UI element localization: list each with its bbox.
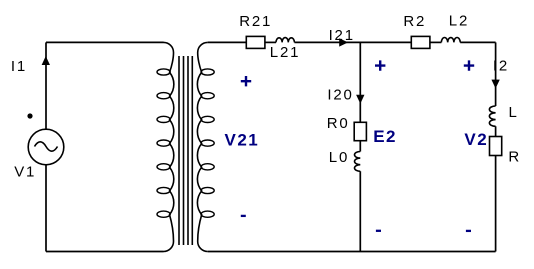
arrow I1 [42, 57, 49, 65]
wire bottom-left rail [46, 251, 164, 253]
wire secondary top rail segment 5 [460, 41, 495, 43]
svg-text:I21: I21 [329, 27, 355, 44]
svg-text:I20: I20 [327, 87, 353, 104]
resistor R2 [411, 36, 430, 48]
wire left vertical lower [45, 165, 47, 252]
resistor R [490, 137, 502, 156]
plus sign E2 [375, 60, 385, 70]
wire secondary top rail segment 3 [294, 41, 411, 43]
wire secondary top rail segment 4 [430, 41, 441, 43]
transformer core [179, 56, 192, 245]
svg-text:L2: L2 [449, 13, 469, 30]
transformer winding loops [157, 69, 214, 217]
minus sign E2 [376, 230, 381, 232]
transformer left winding [164, 42, 174, 251]
arrow I2 [492, 80, 499, 88]
wire right vertical middle [495, 126, 497, 136]
wire left vertical upper [45, 42, 47, 129]
wire middle branch between R0 and L0 [359, 141, 361, 152]
svg-text:R2: R2 [403, 13, 426, 30]
svg-text:L0: L0 [329, 149, 349, 166]
arrow I21 [340, 39, 348, 46]
svg-text:V2: V2 [464, 130, 488, 149]
polarity dot [27, 113, 32, 118]
wire bottom-right rail [208, 251, 496, 253]
svg-text:R21: R21 [239, 13, 272, 30]
wire right vertical lower [495, 156, 497, 252]
svg-text:L21: L21 [270, 44, 300, 61]
minus sign V2 [466, 230, 471, 232]
wire secondary top rail segment 1 [208, 41, 247, 43]
transformer right winding [197, 42, 207, 251]
arrow I20 [357, 95, 364, 103]
inductor L [489, 106, 495, 126]
inductor L2 [441, 37, 460, 42]
inductor L21 [276, 38, 294, 43]
svg-text:V21: V21 [225, 131, 260, 150]
resistor R21 [246, 36, 265, 48]
svg-text:V1: V1 [14, 163, 36, 180]
wire middle branch lower [359, 171, 361, 251]
wire middle branch upper [359, 42, 361, 122]
plus sign V21 [241, 76, 251, 86]
resistor R0 [354, 122, 366, 140]
svg-text:R: R [508, 149, 521, 166]
svg-text:R0: R0 [327, 115, 350, 132]
wire top-left rail [46, 41, 164, 43]
svg-text:I2: I2 [493, 57, 509, 74]
wire right vertical upper [495, 42, 497, 106]
wire secondary top rail segment 2 [265, 41, 276, 43]
minus sign V21 [241, 215, 246, 217]
inductor L0 [354, 152, 360, 172]
svg-text:E2: E2 [373, 127, 397, 146]
svg-text:L: L [509, 104, 519, 121]
voltage source V1 [28, 129, 64, 165]
plus sign V2 [464, 60, 474, 70]
svg-text:I1: I1 [11, 58, 27, 75]
